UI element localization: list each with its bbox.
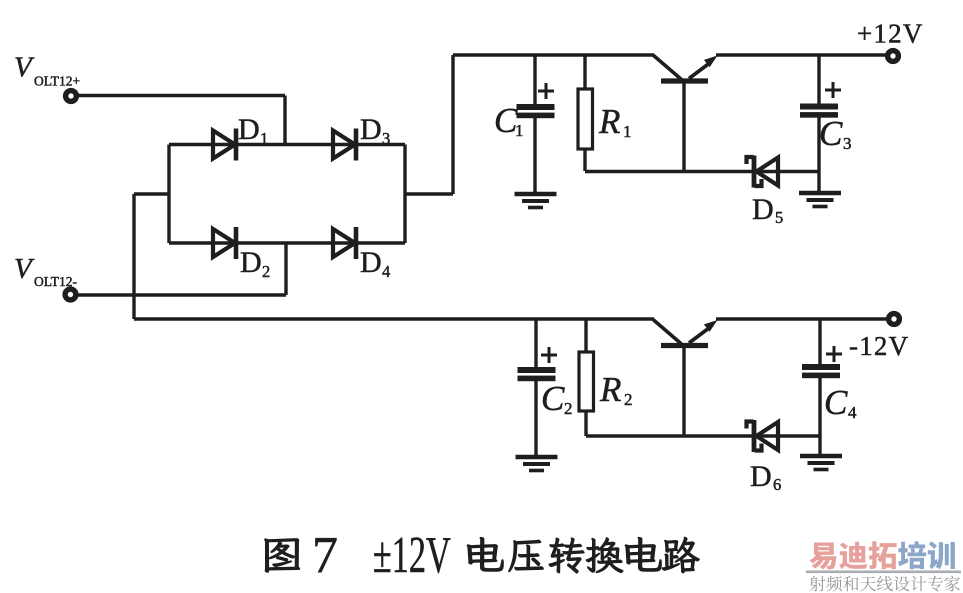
svg-text:C: C bbox=[824, 383, 848, 422]
svg-text:OLT12+: OLT12+ bbox=[34, 74, 80, 89]
caption: figure title 图7 ±12V 电压转换电路 bbox=[265, 526, 699, 584]
wire: upper top rail left bbox=[453, 53, 654, 56]
ground (C4) bbox=[800, 454, 842, 459]
wire: V OLT12- input lead bbox=[78, 293, 286, 296]
svg-text:1: 1 bbox=[515, 121, 524, 140]
wire: up to bridge bottom rail bbox=[284, 243, 287, 295]
zener diode D6 bbox=[752, 420, 757, 452]
wire: right vertical to upper rail bbox=[451, 55, 454, 194]
svg-text:R: R bbox=[599, 370, 621, 409]
svg-text:D: D bbox=[752, 193, 774, 226]
terminal -12V bbox=[889, 314, 900, 325]
svg-text:OLT12-: OLT12- bbox=[34, 274, 78, 289]
svg-text:R: R bbox=[598, 102, 620, 141]
watermark logo 易迪拓培训 bbox=[809, 541, 954, 569]
svg-text:1: 1 bbox=[623, 122, 632, 141]
resistor R2 bbox=[584, 319, 587, 352]
watermark tagline 射频和天线设计专家 bbox=[810, 576, 960, 592]
wire: bridge right edge bbox=[403, 145, 406, 244]
wire: left vertical to lower rail bbox=[132, 194, 135, 319]
wire: lower main rail right bbox=[716, 317, 889, 320]
svg-text:C: C bbox=[819, 114, 843, 153]
capacitor C4 bbox=[818, 319, 821, 364]
capacitor C1 bbox=[533, 55, 536, 104]
diode D1 bbox=[213, 131, 235, 159]
ground (C1) bbox=[515, 192, 557, 197]
svg-text:4: 4 bbox=[848, 403, 857, 422]
svg-text:-12V: -12V bbox=[849, 331, 909, 361]
svg-text:3: 3 bbox=[382, 129, 390, 148]
transistor Q1 bbox=[653, 55, 718, 172]
resistor R1 bbox=[583, 55, 586, 89]
svg-text:3: 3 bbox=[843, 134, 852, 153]
ground (C2) bbox=[516, 455, 558, 460]
svg-text:±12V: ±12V bbox=[373, 526, 451, 584]
wire: bridge left edge bbox=[167, 145, 170, 244]
svg-text:1: 1 bbox=[260, 129, 268, 148]
capacitor C3 bbox=[817, 55, 820, 104]
wire: bridge bottom rail bbox=[169, 241, 405, 245]
wire: left mid stub bbox=[134, 192, 169, 195]
terminal VOLT12+ bbox=[66, 91, 77, 102]
terminal VOLT12- bbox=[65, 289, 76, 300]
capacitor C2 bbox=[534, 319, 537, 367]
transistor Q2 bbox=[653, 320, 718, 437]
svg-text:+12V: +12V bbox=[857, 19, 924, 49]
svg-text:D: D bbox=[360, 113, 382, 146]
wire: down to bridge top rail bbox=[283, 96, 286, 147]
wire: lower bottom rail (R2 bottom to C4) bbox=[586, 434, 820, 437]
wire: right mid stub bbox=[405, 192, 453, 195]
svg-text:D: D bbox=[240, 246, 262, 279]
wire: upper lower rail (R1 bottom to C3) bbox=[585, 170, 819, 173]
wire: upper top rail right bbox=[716, 53, 888, 56]
wire: V OLT12+ input lead bbox=[78, 94, 285, 97]
ground (C3) bbox=[799, 191, 841, 196]
svg-text:6: 6 bbox=[773, 475, 781, 494]
diode D4 bbox=[333, 229, 355, 257]
zener diode D5 bbox=[752, 156, 757, 188]
svg-text:C: C bbox=[541, 379, 565, 418]
svg-text:2: 2 bbox=[564, 399, 573, 418]
svg-text:D: D bbox=[238, 113, 260, 146]
diode D2 bbox=[213, 229, 235, 257]
svg-text:D: D bbox=[750, 460, 772, 493]
terminal +12V bbox=[888, 51, 899, 62]
svg-text:2: 2 bbox=[262, 262, 270, 281]
diode D3 bbox=[333, 131, 355, 159]
watermark underline bbox=[806, 571, 961, 574]
svg-text:D: D bbox=[360, 246, 382, 279]
wire: lower main rail left bbox=[134, 317, 654, 320]
svg-text:4: 4 bbox=[382, 262, 390, 281]
svg-text:5: 5 bbox=[775, 208, 783, 227]
svg-text:7: 7 bbox=[312, 527, 338, 584]
wire: bridge top rail bbox=[169, 143, 405, 147]
svg-text:2: 2 bbox=[624, 390, 633, 409]
